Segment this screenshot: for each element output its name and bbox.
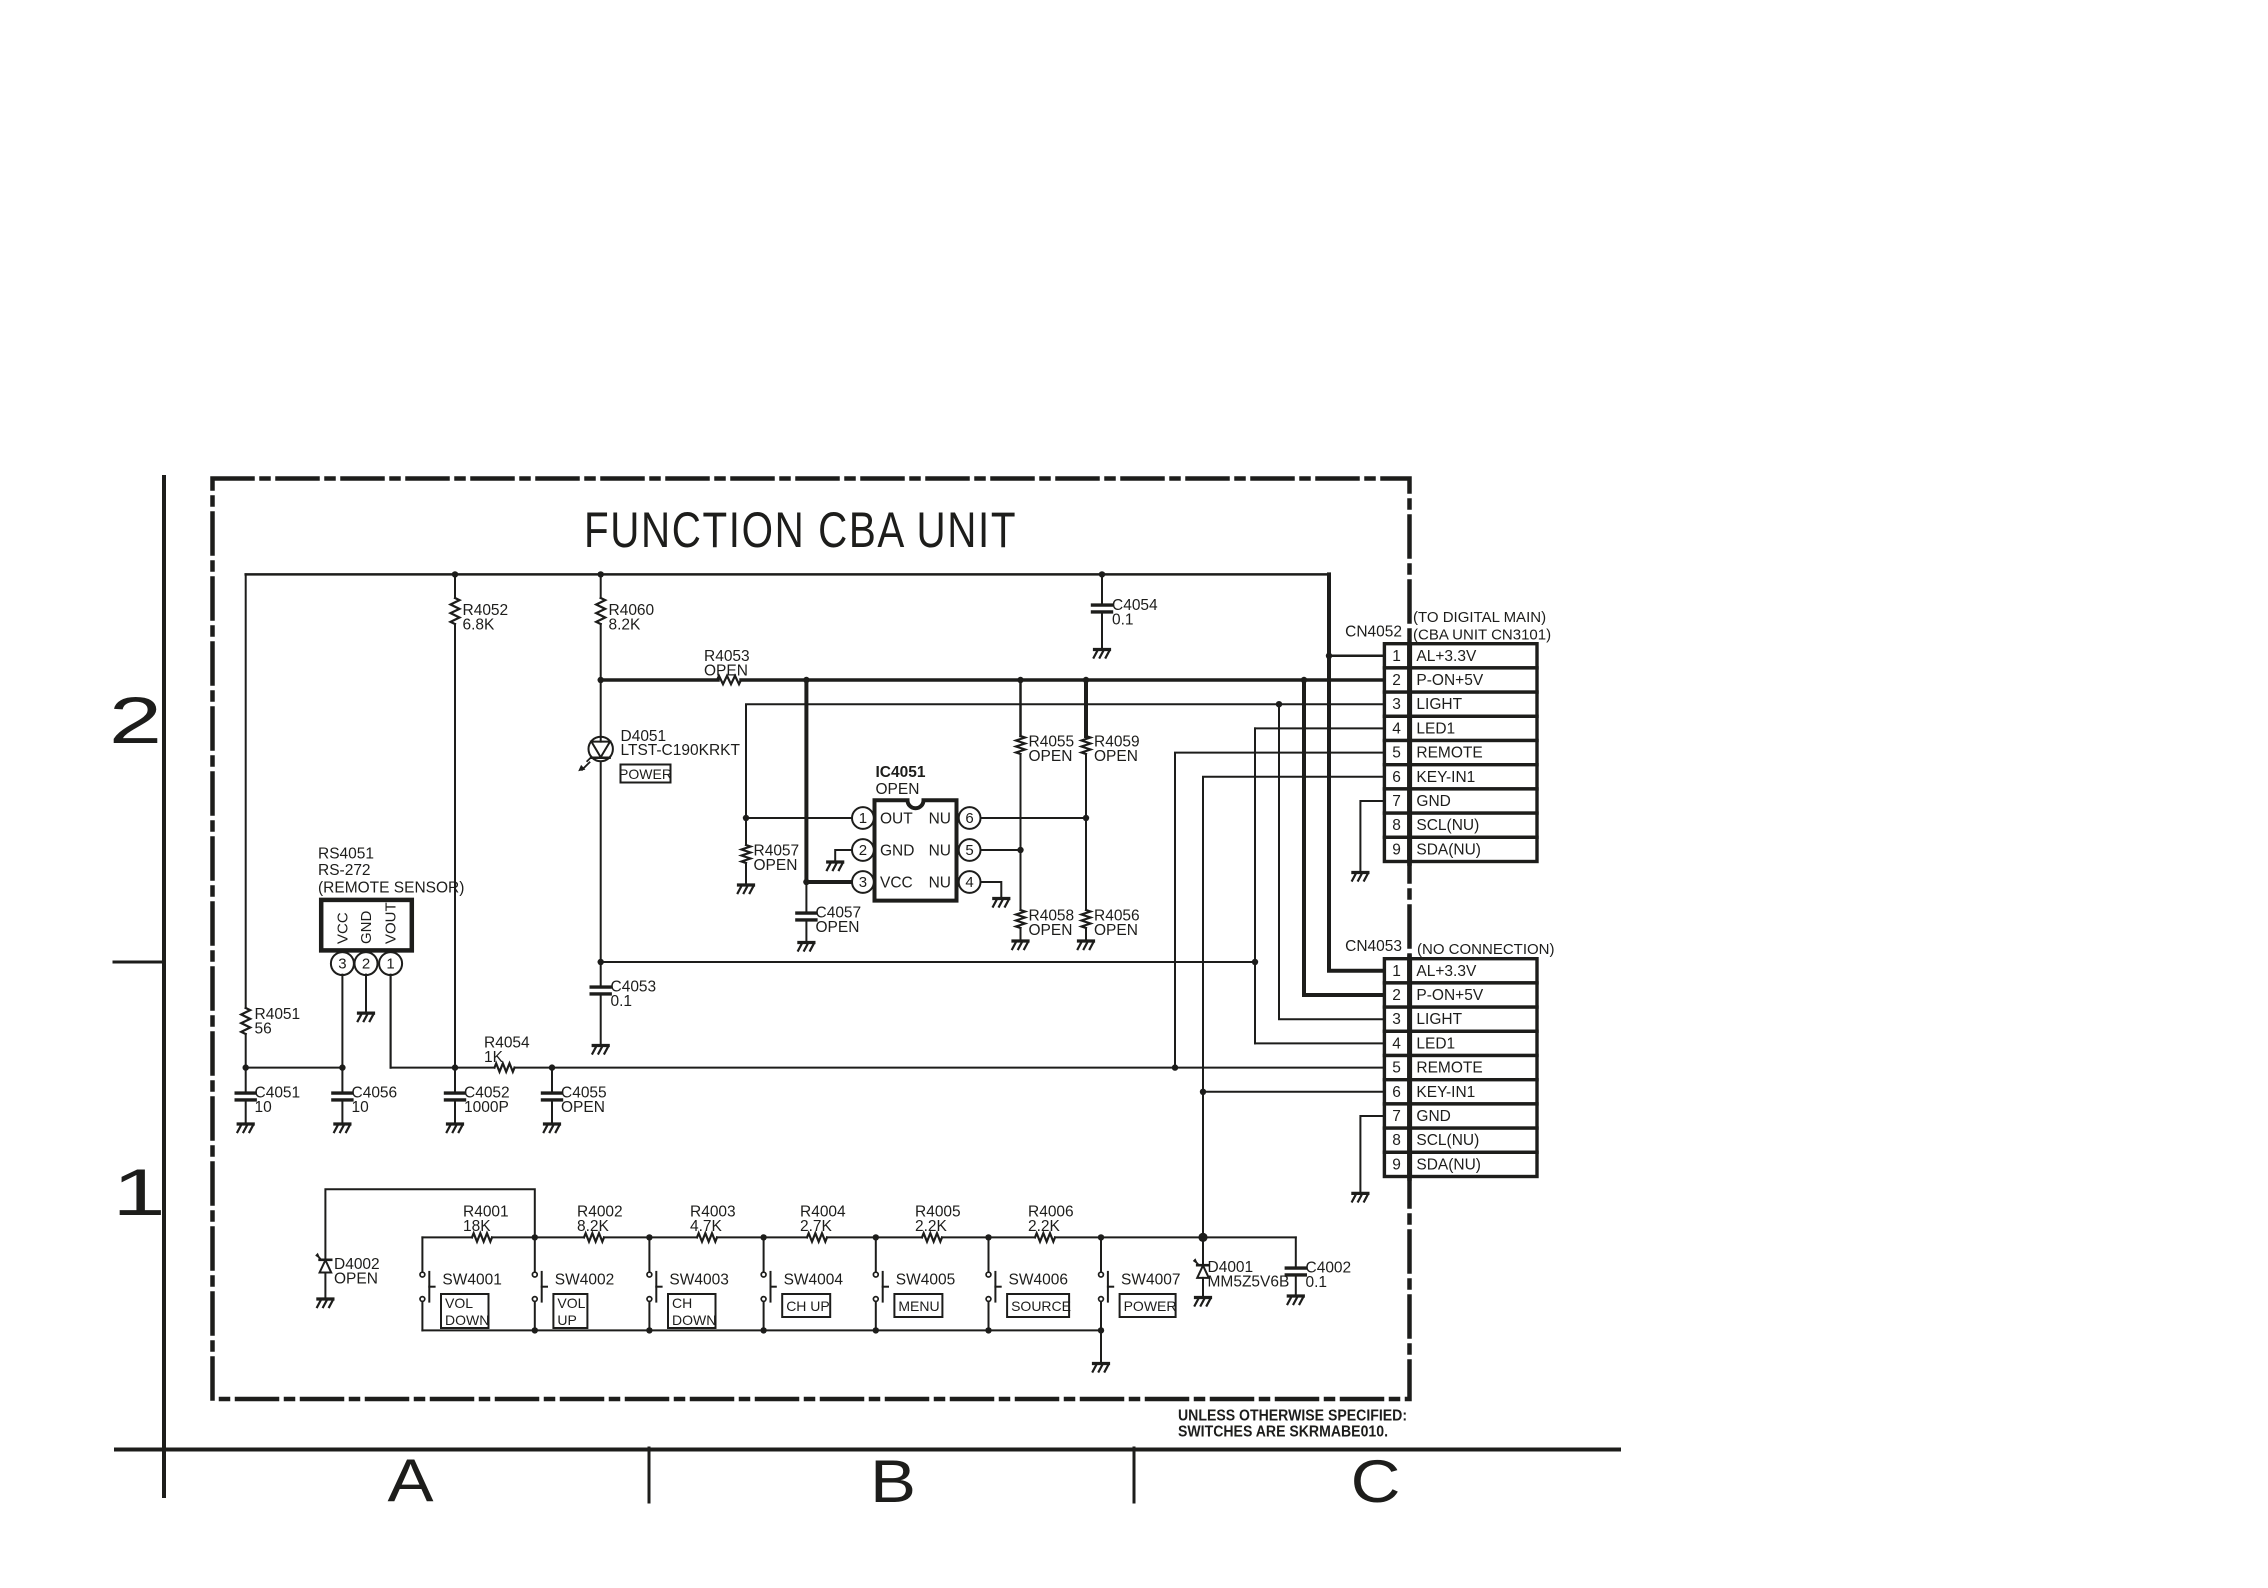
svg-text:GND: GND <box>358 911 375 945</box>
node ladder bottom rail <box>873 1327 879 1333</box>
svg-text:SCL(NU): SCL(NU) <box>1416 817 1479 834</box>
switch SW4002 <box>534 1237 536 1272</box>
IC4051 pin 5 <box>959 839 981 861</box>
ground C4055 <box>544 1124 560 1132</box>
svg-text:56: 56 <box>255 1021 272 1038</box>
svg-text:2: 2 <box>859 842 867 859</box>
node ladder bottom rail <box>760 1327 766 1333</box>
svg-text:OPEN: OPEN <box>561 1099 605 1116</box>
svg-text:KEY-IN1: KEY-IN1 <box>1416 1084 1475 1101</box>
node R4052/C4052 <box>452 1064 458 1070</box>
ground C4051 <box>237 1124 253 1132</box>
svg-text:SW4007: SW4007 <box>1121 1272 1180 1289</box>
wire RS pin1 down <box>390 975 392 1068</box>
svg-text:1: 1 <box>1392 963 1401 980</box>
svg-text:2.2K: 2.2K <box>915 1218 948 1235</box>
label box SW4002 <box>553 1294 587 1328</box>
node P-ON CN4053 branch <box>1301 677 1307 683</box>
svg-text:OPEN: OPEN <box>1094 748 1138 765</box>
label box SW4004 <box>782 1294 830 1317</box>
svg-text:SW4005: SW4005 <box>896 1272 955 1289</box>
svg-text:DOWN: DOWN <box>445 1312 489 1328</box>
svg-text:CN4053: CN4053 <box>1345 938 1402 955</box>
resistor R4052 <box>451 598 460 624</box>
wire LED1 to CN4053 pin4 <box>1255 1042 1384 1044</box>
capacitor C4054 <box>1101 574 1103 603</box>
ground CN4052 pin7 <box>1352 873 1368 881</box>
resistor R4004 <box>807 1233 827 1241</box>
resistor R4003 <box>697 1233 717 1241</box>
node CN4052 pin1 <box>1326 653 1332 659</box>
ground D4002 <box>317 1299 333 1307</box>
node ladder top rail <box>760 1234 766 1240</box>
svg-text:SW4006: SW4006 <box>1009 1272 1068 1289</box>
svg-text:4: 4 <box>965 874 973 891</box>
remote sensor RS4051 body <box>321 900 412 951</box>
svg-text:SOURCE: SOURCE <box>1011 1298 1071 1314</box>
wire ladder bottom rail <box>422 1329 1101 1331</box>
ground RS pin2 <box>358 1013 374 1021</box>
svg-text:6: 6 <box>1392 1084 1401 1101</box>
svg-text:1: 1 <box>1392 648 1401 665</box>
svg-text:5: 5 <box>1392 745 1401 762</box>
wire P-ON to CN4053 pin2 <box>1304 680 1384 995</box>
resistor R4005 <box>922 1233 942 1241</box>
wire VOUT down <box>390 975 392 1068</box>
ground D4001 <box>1195 1298 1211 1306</box>
switch SW4003 <box>648 1237 650 1272</box>
svg-text:POWER: POWER <box>1124 1298 1177 1314</box>
svg-text:MENU: MENU <box>898 1298 939 1314</box>
node top rail R4052 <box>452 571 458 577</box>
resistor R4060 <box>596 598 605 624</box>
resistor R4002 <box>584 1233 604 1241</box>
switch SW4005 <box>875 1237 877 1272</box>
svg-text:8: 8 <box>1392 817 1401 834</box>
node P-ON R4060 <box>598 677 604 683</box>
svg-text:OPEN: OPEN <box>704 663 748 680</box>
svg-text:REMOTE: REMOTE <box>1416 745 1482 762</box>
wire LED1 horizontal <box>601 961 1255 963</box>
svg-text:CH: CH <box>672 1295 692 1311</box>
ruler tick A/B divider <box>648 1448 651 1502</box>
capacitor C4002 <box>1295 1237 1297 1266</box>
svg-text:SW4004: SW4004 <box>784 1272 844 1289</box>
ground IC pin2 <box>827 862 843 870</box>
switch SW4006 <box>988 1237 990 1272</box>
svg-text:NU: NU <box>929 811 951 828</box>
svg-text:SDA(NU): SDA(NU) <box>1416 841 1481 858</box>
wire IC pin5 stub <box>981 849 1021 851</box>
node ladder bottom rail <box>646 1327 652 1333</box>
svg-text:KEY-IN1: KEY-IN1 <box>1416 769 1475 786</box>
svg-text:9: 9 <box>1392 841 1401 858</box>
node VCC C4057 <box>803 879 809 885</box>
svg-text:OPEN: OPEN <box>816 919 860 936</box>
svg-text:VOUT: VOUT <box>383 902 400 944</box>
diode D4001 <box>1202 1237 1204 1264</box>
wire top AL+3.3V rail <box>246 573 1329 576</box>
svg-text:DOWN: DOWN <box>672 1312 716 1328</box>
node KEY-IN1 CN4053 branch <box>1200 1089 1206 1095</box>
svg-text:OUT: OUT <box>880 811 913 828</box>
ground R4057 <box>738 885 754 893</box>
svg-text:FUNCTION CBA UNIT: FUNCTION CBA UNIT <box>584 502 1017 558</box>
svg-text:RS-272: RS-272 <box>318 862 371 879</box>
resistor R4058 <box>1016 910 1025 928</box>
wire IC pin6 stub <box>981 817 1087 819</box>
node top rail R4060 <box>598 571 604 577</box>
svg-text:SWITCHES ARE SKRMABE010.: SWITCHES ARE SKRMABE010. <box>1178 1424 1388 1441</box>
ground C4052 <box>447 1124 463 1132</box>
wire KEY-IN1 horizontal right <box>515 1067 1385 1069</box>
label box SW4003 <box>668 1294 716 1328</box>
wire R4052 branch upper <box>454 574 456 598</box>
wire LED1 vertical <box>1254 728 1256 1043</box>
node pin6 R4059 <box>1083 815 1089 821</box>
resistor R4053 <box>717 676 741 684</box>
svg-text:1: 1 <box>386 956 394 973</box>
node LED cathode junction <box>598 959 604 965</box>
ground R4056 <box>1078 941 1094 949</box>
svg-text:SW4003: SW4003 <box>669 1272 728 1289</box>
ground CN4053 pin7 <box>1352 1193 1368 1201</box>
svg-text:10: 10 <box>352 1099 370 1116</box>
node ladder bottom rail <box>532 1327 538 1333</box>
svg-text:6.8K: 6.8K <box>463 617 496 634</box>
svg-text:2: 2 <box>1392 987 1401 1004</box>
svg-text:2.7K: 2.7K <box>800 1218 833 1235</box>
svg-text:SW4002: SW4002 <box>555 1272 614 1289</box>
op-amp IC4051 body <box>875 800 957 900</box>
node REMOTE junction <box>1172 1064 1178 1070</box>
svg-text:6: 6 <box>1392 769 1401 786</box>
wire R4058 to ground <box>1020 928 1022 940</box>
wire R4060 branch upper <box>600 574 602 598</box>
svg-text:3: 3 <box>1392 1011 1401 1028</box>
node ladder top rail <box>532 1234 538 1240</box>
switch SW4007 <box>1100 1237 1102 1272</box>
left zone tick divider <box>114 961 164 964</box>
wire left drop to R4051 <box>245 574 247 1008</box>
node C4051 <box>243 1064 249 1070</box>
wire RS pin2 to ground <box>365 975 367 1012</box>
wire KEY-IN1 vertical <box>1203 777 1384 1238</box>
svg-text:OPEN: OPEN <box>334 1271 378 1288</box>
ground C4056 <box>334 1124 350 1132</box>
IC4051 pin 6 <box>959 807 981 829</box>
svg-text:7: 7 <box>1392 793 1401 810</box>
svg-text:OPEN: OPEN <box>1094 922 1138 939</box>
svg-text:UNLESS OTHERWISE SPECIFIED:: UNLESS OTHERWISE SPECIFIED: <box>1178 1408 1407 1425</box>
svg-text:4: 4 <box>1392 720 1401 737</box>
svg-text:OPEN: OPEN <box>1029 922 1073 939</box>
svg-text:CH UP: CH UP <box>786 1298 830 1314</box>
RS4051 pin 1 <box>379 952 402 975</box>
svg-text:GND: GND <box>1416 1108 1450 1125</box>
LED D4051 <box>589 737 613 761</box>
wire R4051 to KEY node <box>245 1034 247 1068</box>
wire D4002 link <box>325 1189 534 1258</box>
wire CN4053 pin7 ground <box>1360 1116 1384 1192</box>
node LED1 vertical <box>1252 959 1258 965</box>
connector CN4053 <box>1384 959 1408 983</box>
node LIGHT CN4053 branch <box>1276 701 1282 707</box>
svg-text:GND: GND <box>880 843 914 860</box>
svg-text:LED1: LED1 <box>1416 720 1455 737</box>
node bottom rail ground <box>1098 1327 1104 1333</box>
svg-text:4: 4 <box>1392 1035 1401 1052</box>
switch SW4001 <box>421 1237 423 1272</box>
resistor R4056 <box>1082 910 1091 928</box>
svg-text:1: 1 <box>112 1156 165 1229</box>
svg-text:0.1: 0.1 <box>1112 612 1134 629</box>
svg-text:(CBA UNIT CN3101): (CBA UNIT CN3101) <box>1413 627 1551 644</box>
wire R4055 upper <box>1019 680 1022 736</box>
svg-text:VCC: VCC <box>334 912 351 944</box>
svg-text:6: 6 <box>965 810 973 827</box>
ground C4002 <box>1288 1296 1304 1304</box>
node C4055 <box>549 1064 555 1070</box>
switch SW4004 <box>763 1237 765 1272</box>
wire bottom rail to ground <box>1100 1330 1102 1362</box>
wire OUT stub <box>746 817 852 819</box>
wire IC pin4 to ground <box>981 882 1002 897</box>
ruler tick B/C divider <box>1133 1448 1136 1502</box>
label box SW4007 <box>1120 1294 1176 1317</box>
svg-text:B: B <box>870 1447 916 1515</box>
RS4051 pin 2 <box>355 952 378 975</box>
svg-text:(TO DIGITAL MAIN): (TO DIGITAL MAIN) <box>1413 609 1546 626</box>
IC4051 pin 3 <box>852 871 874 893</box>
wire KEY-IN1 to CN4053 pin6 <box>1203 1091 1384 1093</box>
wire KEY-IN1 horizontal left <box>391 1067 495 1069</box>
svg-text:REMOTE: REMOTE <box>1416 1060 1482 1077</box>
dash-dot schematic border <box>213 479 1410 1400</box>
wire P-ON+5V rail right <box>741 678 1384 682</box>
capacitor C4055 <box>551 1068 553 1092</box>
svg-text:LIGHT: LIGHT <box>1416 1011 1462 1028</box>
wire REMOTE to CN4052 pin5 <box>1175 753 1384 1068</box>
svg-text:VOL: VOL <box>557 1295 585 1311</box>
svg-text:IC4051: IC4051 <box>876 764 926 781</box>
capacitor C4056 <box>341 1068 343 1092</box>
svg-text:2: 2 <box>362 956 370 973</box>
wire C4051-C4056 net <box>246 1067 343 1069</box>
wire LED1 to CN4052 pin4 <box>1255 727 1384 729</box>
svg-text:GND: GND <box>1416 793 1450 810</box>
wire CN4052 pin1 stub <box>1329 655 1384 658</box>
wire LIGHT rail to CN4052 pin3 <box>746 704 1384 818</box>
svg-text:(NO CONNECTION): (NO CONNECTION) <box>1417 941 1555 958</box>
svg-text:8.2K: 8.2K <box>577 1218 610 1235</box>
svg-text:5: 5 <box>1392 1060 1401 1077</box>
svg-text:OPEN: OPEN <box>754 857 798 874</box>
svg-text:5: 5 <box>965 842 973 859</box>
node C4056 <box>339 1064 345 1070</box>
capacitor C4057 <box>805 882 807 912</box>
sheet border vertical line <box>162 477 166 1496</box>
svg-text:3: 3 <box>859 874 867 891</box>
svg-text:A: A <box>387 1446 433 1514</box>
ground C4057 <box>798 943 814 951</box>
ground C4054 <box>1094 650 1110 658</box>
svg-text:NU: NU <box>929 843 951 860</box>
svg-text:CN4052: CN4052 <box>1345 624 1402 641</box>
svg-text:NU: NU <box>929 875 951 892</box>
svg-text:2: 2 <box>109 684 162 757</box>
wire CN4052 pin7 ground <box>1360 801 1384 871</box>
svg-text:18K: 18K <box>463 1218 491 1235</box>
svg-text:1000P: 1000P <box>464 1099 509 1116</box>
wire R4055-R4058 <box>1020 754 1022 910</box>
node P-ON VCC branch <box>803 677 809 683</box>
svg-text:1: 1 <box>859 810 867 827</box>
svg-text:1K: 1K <box>484 1049 504 1066</box>
svg-text:UP: UP <box>557 1312 576 1328</box>
wire LIGHT to CN4053 pin3 <box>1279 704 1384 1019</box>
svg-text:8: 8 <box>1392 1132 1401 1149</box>
svg-text:LIGHT: LIGHT <box>1416 696 1462 713</box>
svg-text:2.2K: 2.2K <box>1028 1218 1061 1235</box>
resistor R4059 <box>1082 736 1091 754</box>
svg-text:OPEN: OPEN <box>1029 748 1073 765</box>
node ladder bottom rail <box>985 1327 991 1333</box>
svg-text:OPEN: OPEN <box>876 781 920 798</box>
wire R4052 branch lower <box>454 624 456 1068</box>
RS4051 pin 3 <box>331 952 354 975</box>
wire R4059 upper <box>1084 680 1088 736</box>
svg-text:2: 2 <box>1392 672 1401 689</box>
resistor R4055 <box>1016 736 1025 754</box>
svg-text:SDA(NU): SDA(NU) <box>1416 1156 1481 1173</box>
svg-text:4.7K: 4.7K <box>690 1218 723 1235</box>
IC4051 pin 2 <box>852 839 874 861</box>
wire R4059-R4056 <box>1085 754 1087 910</box>
svg-text:LED1: LED1 <box>1416 1035 1455 1052</box>
svg-text:LTST-C190KRKT: LTST-C190KRKT <box>621 742 741 759</box>
svg-text:P-ON+5V: P-ON+5V <box>1416 987 1483 1004</box>
node KEY-IN1 ladder junction <box>1198 1233 1207 1242</box>
label box POWER for D4051 <box>621 765 671 783</box>
node top rail C4054 <box>1099 571 1105 577</box>
resistor R4051 <box>241 1008 250 1034</box>
node ladder top rail <box>1098 1234 1104 1240</box>
node ladder top rail <box>873 1234 879 1240</box>
wire P-ON+5V rail <box>601 678 718 682</box>
wire RS pin3 down <box>341 975 343 1068</box>
wire AL+3.3V trunk <box>1329 574 1384 970</box>
ground IC pin4 <box>993 899 1009 907</box>
node P-ON R4059 <box>1083 677 1089 683</box>
IC4051 pin 4 <box>959 871 981 893</box>
svg-text:8.2K: 8.2K <box>609 617 642 634</box>
resistor R4006 <box>1035 1233 1055 1241</box>
capacitor C4053 <box>600 962 602 986</box>
resistor R4057 <box>745 818 747 845</box>
svg-text:7: 7 <box>1392 1108 1401 1125</box>
wire ladder top rail <box>422 1236 472 1238</box>
IC4051 pin 1 <box>852 807 874 829</box>
label box SW4001 <box>441 1294 489 1328</box>
connector CN4052 <box>1384 644 1408 668</box>
node LIGHT IC OUT <box>743 815 749 821</box>
node P-ON R4055 <box>1017 677 1023 683</box>
ground ladder <box>1093 1364 1109 1372</box>
capacitor C4052 <box>454 1068 456 1092</box>
svg-text:VOL: VOL <box>445 1295 473 1311</box>
node ladder top rail <box>985 1234 991 1240</box>
svg-text:SCL(NU): SCL(NU) <box>1416 1132 1479 1149</box>
wire R4060 to P-ON rail and LED <box>600 624 602 962</box>
wire R4056 to ground <box>1085 928 1087 940</box>
capacitor C4051 <box>245 1068 247 1092</box>
svg-text:3: 3 <box>338 956 346 973</box>
node pin5 R4055 <box>1017 847 1023 853</box>
svg-text:P-ON+5V: P-ON+5V <box>1416 672 1483 689</box>
svg-text:3: 3 <box>1392 696 1401 713</box>
sheet bottom ruler line <box>116 1448 1619 1452</box>
svg-text:9: 9 <box>1392 1156 1401 1173</box>
svg-text:AL+3.3V: AL+3.3V <box>1416 648 1477 665</box>
svg-text:RS4051: RS4051 <box>318 845 374 862</box>
svg-text:AL+3.3V: AL+3.3V <box>1416 963 1477 980</box>
label box SW4005 <box>894 1294 942 1317</box>
wire IC pin2 to ground <box>835 850 852 861</box>
wire VCC branch <box>806 680 852 882</box>
label box SW4006 <box>1007 1294 1069 1317</box>
svg-text:10: 10 <box>255 1099 273 1116</box>
diode D4002 <box>315 1253 331 1273</box>
svg-text:VCC: VCC <box>880 875 913 892</box>
svg-text:MM5Z5V6B: MM5Z5V6B <box>1208 1274 1290 1291</box>
svg-text:(REMOTE SENSOR): (REMOTE SENSOR) <box>318 879 464 896</box>
svg-text:0.1: 0.1 <box>1306 1274 1328 1291</box>
svg-text:POWER: POWER <box>619 766 672 782</box>
svg-text:SW4001: SW4001 <box>442 1272 501 1289</box>
ground C4053 <box>592 1046 608 1054</box>
ground R4058 <box>1012 941 1028 949</box>
svg-text:C: C <box>1351 1447 1401 1515</box>
resistor R4001 <box>472 1233 492 1241</box>
svg-text:0.1: 0.1 <box>611 993 633 1010</box>
node ladder top rail <box>646 1234 652 1240</box>
resistor R4054 <box>495 1063 515 1071</box>
